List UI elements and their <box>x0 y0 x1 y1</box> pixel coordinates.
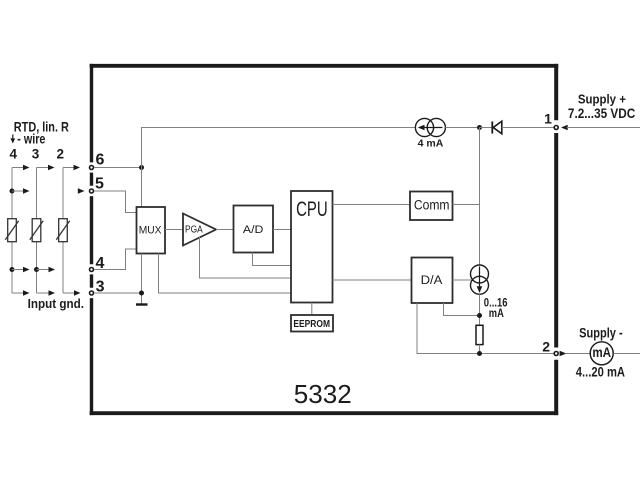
ground symbol <box>136 303 148 305</box>
terminal 6 <box>90 151 105 169</box>
wire junction A up to top rail <box>142 128 416 168</box>
wire terminal2 to mA meter <box>566 353 590 355</box>
wire diode to terminal 1 <box>502 127 554 129</box>
wire supply rail vertical <box>479 128 481 266</box>
terminal 5 <box>90 175 105 193</box>
Comm block <box>410 192 453 221</box>
main enclosure border right (gaps at terminals 1,2) <box>554 64 558 415</box>
CPU U2 <box>291 191 333 303</box>
wire MUX ground stub <box>141 254 143 305</box>
svg-text:5332: 5332 <box>294 381 352 409</box>
node D junction dot <box>477 351 482 356</box>
resistor R1 <box>476 325 483 344</box>
sensor wire 4 (vertical) <box>11 168 13 294</box>
wire source to node B <box>479 294 481 325</box>
node B junction dot <box>477 313 482 318</box>
wire Comm to supply rail <box>453 204 480 206</box>
wire junction A down to MUX top <box>141 168 143 208</box>
svg-text:2: 2 <box>542 338 550 354</box>
main enclosure border bottom <box>90 411 559 415</box>
arrow into terminal 1 <box>561 125 568 130</box>
diode D1 <box>492 121 502 134</box>
svg-text:MUX: MUX <box>139 224 162 236</box>
svg-text:4 mA: 4 mA <box>418 137 444 149</box>
svg-text:A/D: A/D <box>243 224 264 236</box>
RTD sensor on wire 2 <box>56 219 69 242</box>
wire CPU to EEPROM <box>311 303 313 316</box>
wire terminal4 to MUX input2 <box>94 249 136 270</box>
RTD sensor on wire 3 <box>30 219 43 242</box>
wire row terminal3: arrow from wire 4 <box>12 290 30 295</box>
wire row terminal3: arrow from wire 3 <box>37 290 56 295</box>
wire row terminal5: arrow from wire 4 <box>12 188 30 193</box>
terminal 1 <box>544 111 558 130</box>
wire row terminal3: arrow from wire 2 <box>63 290 81 295</box>
wire MUX output to PGA <box>165 229 183 231</box>
wire PGA control to CPU <box>200 237 292 278</box>
wire D/A to current source 0..16mA <box>453 279 471 281</box>
wire row terminal4: arrow from wire 3 <box>37 267 56 272</box>
arrow out of terminal 2 <box>560 351 567 356</box>
RTD sensor on wire 4 <box>5 219 18 242</box>
wire row terminal6: arrow from wire 4 <box>12 165 30 170</box>
sensor wire 2 (vertical) <box>62 168 64 294</box>
wire row terminal6: arrow from wire 2 <box>63 165 80 170</box>
svg-text:EEPROM: EEPROM <box>293 319 330 330</box>
wire D/A bottom left stub to output rail <box>417 303 554 354</box>
wire terminal5 to MUX input1 <box>94 191 136 213</box>
svg-text:3: 3 <box>32 146 40 161</box>
junction on wire 3 row terminal4 <box>34 267 39 272</box>
junction on wire 4 row terminal4 <box>10 267 15 272</box>
A/D converter <box>234 206 274 253</box>
terminal 3 <box>90 279 105 296</box>
svg-text:4...20 mA: 4...20 mA <box>576 364 625 379</box>
svg-text:Comm: Comm <box>414 197 450 213</box>
node A junction dot <box>139 165 144 170</box>
wire PGA to A/D <box>216 229 234 231</box>
wire terminal6 to junction A <box>94 167 141 169</box>
svg-text:PGA: PGA <box>185 225 203 236</box>
wire MUX bottom to CPU (gnd sense) <box>159 254 292 294</box>
svg-text:7.2...35 VDC: 7.2...35 VDC <box>568 106 636 121</box>
wire node C to diode <box>480 127 493 129</box>
svg-text:Supply -: Supply - <box>579 326 623 341</box>
svg-text:Supply +: Supply + <box>578 92 626 107</box>
arrow into terminal 5 <box>78 188 85 193</box>
meter mA <box>590 342 613 365</box>
wire supply+ lead <box>567 127 640 129</box>
svg-text:Input gnd.: Input gnd. <box>28 297 84 311</box>
svg-text:4: 4 <box>9 146 17 161</box>
wire terminal3 to ground node <box>94 292 141 294</box>
D/A converter <box>412 258 453 304</box>
wire 4mA source to node C <box>445 127 479 129</box>
svg-text:6: 6 <box>96 151 105 168</box>
svg-text:2: 2 <box>56 146 64 161</box>
wire D/A bottom right stub to node B <box>444 303 480 316</box>
wire A/D bottom to CPU <box>253 253 292 266</box>
node C junction dot <box>477 125 482 130</box>
down arrow of n-wire label <box>10 135 15 144</box>
MUX U1 <box>137 207 166 254</box>
main enclosure border left (gaps at terminals 6,5,4,3) <box>90 64 93 415</box>
current source 0..16 mA (two circles with down arrow) <box>471 265 489 294</box>
svg-text:mA: mA <box>592 345 611 360</box>
main enclosure border top <box>90 64 559 68</box>
op-amp PGA <box>183 214 216 246</box>
junction on wire 4 row terminal5 <box>10 189 15 194</box>
terminal 2 <box>542 338 558 355</box>
wire meter to edge <box>614 353 640 355</box>
current source 4 mA (two circles with left arrow) <box>415 118 445 136</box>
wire row terminal4: arrow from wire 4 <box>12 267 30 272</box>
wire CPU to D/A <box>333 279 412 281</box>
terminal 4 <box>90 255 105 272</box>
ground node junction dot <box>139 291 144 296</box>
svg-text:5: 5 <box>95 175 104 192</box>
wire CPU to Comm <box>333 204 411 206</box>
wire resistor to output rail <box>479 345 481 354</box>
svg-text:D/A: D/A <box>421 273 444 287</box>
svg-text:- wire: - wire <box>17 131 45 146</box>
wire A/D to CPU data <box>273 229 291 231</box>
wire row terminal6: arrow from wire 3 <box>37 165 55 170</box>
sensor wire 3 (vertical) <box>36 168 38 294</box>
svg-text:CPU: CPU <box>296 198 328 221</box>
EEPROM memory <box>291 315 333 332</box>
svg-text:1: 1 <box>544 111 552 127</box>
svg-text:mA: mA <box>489 306 504 320</box>
